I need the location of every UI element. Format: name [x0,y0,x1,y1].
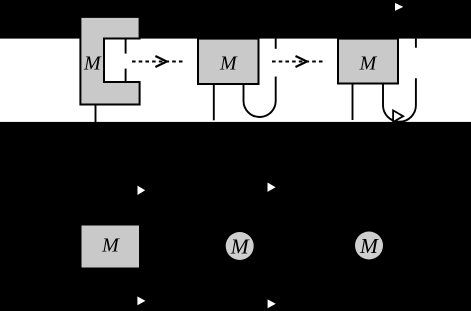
feedback loop wire under M3 [383,78,416,122]
dashed arrow 2 [272,56,323,67]
wire stub in notch (upper) [125,39,127,54]
wire below M2 (left output) [213,84,215,120]
wire stub in notch (lower) [125,69,127,82]
wire below M1 [95,105,97,123]
white arrowhead upper-left wire [138,186,146,195]
svg-text:M: M [230,234,250,258]
box M2 [198,39,259,84]
svg-text:M: M [359,234,379,258]
wire stub above cup right arm [275,39,277,49]
white strip [0,39,471,122]
svg-text:M: M [101,234,120,256]
wire below M3 (left output) [352,84,354,121]
dashed arrow 1 [132,56,183,67]
cup (U-shaped wire under M2) [244,77,276,118]
white arrowhead upper-middle wire [268,183,276,192]
white arrowhead lower-left wire [137,296,145,305]
box M1 (C-shaped block) [80,17,139,105]
open arrowhead on loop bottom [393,110,403,122]
circle M (left) [226,232,254,260]
svg-text:M: M [219,53,238,75]
svg-text:M: M [359,52,378,74]
svg-text:M: M [83,53,102,75]
box M3 [338,39,398,84]
white arrowhead above strip (top wire direction) [395,3,403,11]
circle M (right) [355,232,383,260]
wire stub above loop right arm [415,39,417,48]
white arrowhead lower-middle wire [268,299,276,308]
bottom box M [82,226,140,268]
